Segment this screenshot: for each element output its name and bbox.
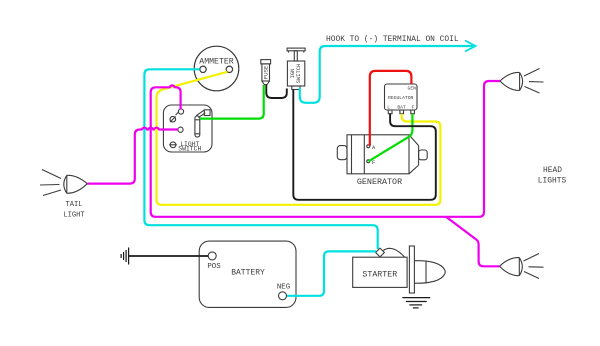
svg-text:GENERATOR: GENERATOR xyxy=(357,177,402,187)
battery xyxy=(199,241,296,307)
wire cyan ammeter to starter xyxy=(144,69,377,249)
svg-text:SWITCH: SWITCH xyxy=(178,146,201,153)
wire green regulator F to generator F xyxy=(369,114,413,162)
fuse xyxy=(261,60,271,85)
wire yellow ammeter to regulator BAT xyxy=(157,72,441,205)
generator xyxy=(337,135,427,187)
svg-text:AMMETER: AMMETER xyxy=(199,58,233,67)
svg-text:STARTER: STARTER xyxy=(362,270,397,279)
head light (top) xyxy=(500,69,544,94)
wire green light switch to fuse xyxy=(200,85,264,119)
svg-text:LIGHTS: LIGHTS xyxy=(538,176,567,185)
ground (battery) xyxy=(121,248,129,265)
svg-text:GEN: GEN xyxy=(408,86,417,92)
ammeter xyxy=(194,46,239,91)
wire black fuse to ign switch xyxy=(266,85,287,98)
wire cyan ign switch to coil (with arrow) xyxy=(300,41,476,103)
wire battery ground to POS xyxy=(129,255,209,257)
svg-text:POS: POS xyxy=(207,263,221,271)
tail light xyxy=(40,170,87,220)
svg-text:LIGHT: LIGHT xyxy=(63,211,84,219)
light switch xyxy=(163,105,212,153)
svg-text:REGULATOR: REGULATOR xyxy=(388,95,414,101)
svg-text:NEG: NEG xyxy=(277,284,290,292)
svg-text:HOOK TO (-) TERMINAL ON COIL: HOOK TO (-) TERMINAL ON COIL xyxy=(326,35,459,44)
ignition switch xyxy=(287,48,305,89)
wire red generator A to regulator GEN xyxy=(370,71,412,146)
wire magenta light switch to tail light xyxy=(88,128,179,184)
head lights label xyxy=(538,166,567,185)
ground (starter) xyxy=(402,298,430,308)
svg-text:SWITCH: SWITCH xyxy=(296,64,302,83)
coil note text xyxy=(326,35,459,44)
svg-text:FUSE: FUSE xyxy=(262,65,269,79)
svg-text:HEAD: HEAD xyxy=(543,166,562,175)
starter xyxy=(353,246,446,293)
wire cyan battery NEG to starter xyxy=(287,251,376,295)
head light (bottom) xyxy=(500,254,544,279)
wire magenta light switch to head lights xyxy=(151,81,500,266)
svg-text:F: F xyxy=(372,160,375,166)
svg-text:BATTERY: BATTERY xyxy=(231,269,265,278)
svg-text:TAIL: TAIL xyxy=(65,201,82,209)
wire black ign switch to regulator L xyxy=(293,90,436,200)
regulator xyxy=(385,84,418,114)
